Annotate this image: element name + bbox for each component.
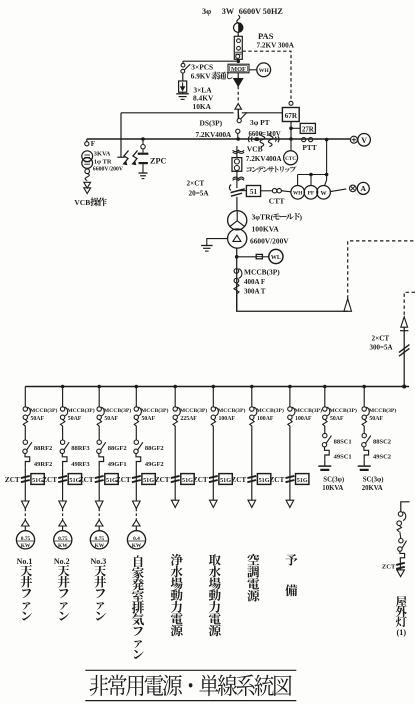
svg-text:KW: KW — [95, 543, 105, 549]
svg-text:67R: 67R — [285, 112, 298, 120]
svg-text:88GF2: 88GF2 — [108, 445, 127, 452]
breaker MCCB(3P) 225AF branch 5 — [173, 407, 177, 411]
cable head branch 1 upper — [22, 501, 30, 509]
svg-text:7.2KV400A: 7.2KV400A — [246, 155, 283, 163]
svg-text:50AF: 50AF — [142, 416, 156, 422]
wire meter drop — [298, 140, 327, 186]
svg-text:300A T: 300A T — [244, 288, 266, 296]
svg-text:49RF3: 49RF3 — [71, 461, 90, 468]
svg-text:225AF: 225AF — [180, 416, 197, 422]
svg-text:ZCT: ZCT — [79, 476, 94, 484]
svg-text:3φ PT: 3φ PT — [250, 118, 270, 127]
title rule bottom — [85, 700, 296, 702]
motor 0.4KW branch 4 — [127, 531, 145, 549]
svg-text:No.1: No.1 — [17, 557, 33, 566]
svg-text:ZCT: ZCT — [382, 564, 396, 571]
meter CTC — [290, 139, 292, 151]
node bus tap branch 3 — [97, 385, 101, 389]
svg-text:51G: 51G — [182, 477, 193, 484]
wire branch 3 down — [98, 489, 100, 501]
wire TR secondary — [85, 169, 90, 174]
arrow to VCB control (double chevron) — [84, 182, 91, 188]
svg-text:KW: KW — [132, 543, 142, 549]
load label No.3 ceiling fan — [94, 565, 106, 621]
svg-text:50HZ: 50HZ — [263, 7, 284, 16]
arrow outdoor light feeder out — [397, 570, 405, 577]
cable head lower — [235, 104, 242, 110]
wire to motor branch 3 — [98, 526, 100, 531]
title rule top — [85, 669, 296, 671]
breaker MCCB(3P) 50AF branch 4 — [134, 407, 138, 411]
arrow feeder out branch 8 — [286, 500, 294, 507]
title 非常用電源・単線系統図 — [89, 675, 291, 697]
wire to PAS — [237, 32, 239, 36]
load label water-purification power — [171, 554, 183, 637]
svg-text:6.9KV: 6.9KV — [191, 73, 212, 81]
svg-text:CTC: CTC — [285, 156, 296, 162]
wire branch 7 down — [251, 489, 253, 501]
node bus tap branch 2 — [61, 385, 65, 389]
svg-text:V: V — [361, 136, 367, 145]
breaker MCCB(3P) 50AF branch 2 — [60, 407, 64, 411]
zct ZCT branch 8 — [286, 476, 295, 478]
svg-text:49SC1: 49SC1 — [334, 453, 352, 460]
cable head branch 1 lower — [22, 520, 30, 526]
zct ZCT branch 2 — [58, 476, 67, 478]
svg-text:88SC2: 88SC2 — [373, 438, 391, 445]
wire feeder cable return (dashed from edge) — [404, 292, 415, 317]
wire to motor branch 2 — [62, 526, 64, 531]
relay 51G branch 5 — [181, 474, 194, 485]
wire to motor branch 4 — [135, 526, 137, 531]
wire branch 4 cable (dashed) — [135, 509, 137, 521]
ct 2xCT 20/5A current transformers — [229, 185, 231, 191]
svg-text:100AF: 100AF — [219, 416, 236, 422]
motor 0.75KW branch 3 — [90, 531, 108, 549]
wire below MOF — [237, 73, 239, 79]
relay 51G branch 6 — [219, 474, 232, 485]
relay 51G branch 1 — [31, 474, 44, 485]
wire feeder cable (dashed up and right) — [348, 241, 415, 299]
svg-text:2×CT: 2×CT — [187, 180, 205, 188]
svg-text:DS(3P): DS(3P) — [200, 119, 223, 128]
node bus tap branch 6 — [212, 385, 216, 389]
svg-text:SC(3φ): SC(3φ) — [323, 477, 344, 484]
relay 51G branch 4 — [142, 474, 155, 485]
svg-text:400A F: 400A F — [244, 278, 265, 286]
fuse F control power — [86, 139, 88, 142]
load label generator-room exhaust fan — [132, 555, 144, 658]
svg-text:No.2: No.2 — [54, 557, 70, 566]
svg-text:0.75: 0.75 — [58, 536, 68, 542]
zct ZCT branch 3 — [95, 476, 104, 478]
wire service drop — [237, 15, 240, 23]
svg-text:MCCB(3P): MCCB(3P) — [329, 407, 357, 414]
capacitor ZPC grounding capacitor — [142, 139, 144, 144]
zct ZCT branch 7 — [247, 476, 256, 478]
svg-text:ZCT: ZCT — [5, 476, 20, 484]
thermal relay 49GF2 branch 4 — [136, 454, 141, 468]
svg-text:MCCB(3P): MCCB(3P) — [180, 407, 208, 414]
arrow feeder out branch 6 — [210, 500, 218, 507]
zct ZCT branch 5 — [171, 476, 180, 478]
capacitor SC(3&#966;) 20KVA power capacitor — [358, 465, 371, 467]
svg-text:PF: PF — [308, 191, 315, 197]
wire to cable head — [237, 294, 348, 311]
svg-text:MCCB(3P): MCCB(3P) — [104, 407, 132, 414]
wire to ZCT branch 3 — [98, 467, 100, 474]
wire MOF to WH meter — [249, 69, 257, 71]
switch 3xPCS primary cutout — [181, 63, 185, 67]
breaker VCB 7.2KV400A vacuum circuit breaker — [233, 152, 245, 154]
wire to ZCT branch 4 — [135, 467, 137, 474]
svg-text:3φ: 3φ — [202, 7, 211, 16]
node responsibility demarcation point — [234, 23, 243, 32]
svg-text:51G: 51G — [259, 477, 270, 484]
svg-text:51G: 51G — [297, 477, 308, 484]
wire control cable to 67R (dashed) — [243, 51, 292, 101]
wire branch 10 drop — [363, 387, 365, 407]
thermal relay 49SC1 — [325, 447, 330, 459]
zct ZCT branch 4 — [132, 476, 141, 478]
wire branch 6 to ZCT — [212, 426, 214, 475]
ground transformer neutral — [207, 239, 228, 246]
svg-text:0.75: 0.75 — [21, 536, 31, 542]
svg-text:VCB: VCB — [74, 198, 90, 207]
meter A ammeter with selector — [350, 185, 357, 192]
svg-text:49RF2: 49RF2 — [34, 461, 52, 468]
wire branch 2 drop — [62, 387, 64, 407]
wire branch 4 to contactor — [135, 426, 137, 440]
svg-text:ZCT: ZCT — [193, 476, 208, 484]
svg-text:100AF: 100AF — [257, 416, 274, 422]
svg-text:0.4: 0.4 — [133, 536, 140, 542]
wire W to ammeter — [330, 189, 346, 192]
cable head feeder in — [401, 317, 408, 327]
svg-text:27R: 27R — [302, 126, 314, 133]
svg-text:20=5A: 20=5A — [189, 190, 210, 198]
cable head branch 2 upper — [59, 501, 67, 509]
wire to capacitor 9 — [324, 459, 326, 466]
svg-text:3φTR(: 3φTR( — [252, 213, 274, 222]
lamp WL white pilot lamp — [269, 249, 283, 263]
terminal PTT test terminal — [302, 138, 306, 142]
svg-text:1φ TR: 1φ TR — [94, 158, 112, 165]
wire cable head to DS — [237, 109, 239, 118]
svg-text:ZCT: ZCT — [42, 476, 57, 484]
wire branch 8 drop — [289, 387, 291, 407]
arrow feeder out branch 5 — [171, 500, 179, 507]
svg-text:(1): (1) — [397, 628, 407, 637]
wire VCB to transformer — [236, 197, 238, 211]
node feeder junction on bus — [402, 385, 406, 389]
svg-text:MCCB(3P): MCCB(3P) — [141, 407, 169, 414]
svg-text:MCCB(3P): MCCB(3P) — [67, 407, 95, 414]
svg-text:88SC1: 88SC1 — [334, 438, 352, 445]
breaker MCCB outdoor light — [398, 512, 403, 517]
svg-text:49GF2: 49GF2 — [145, 461, 164, 468]
thermal relay 49SC2 — [364, 447, 369, 459]
node junction to 27R — [289, 127, 293, 131]
svg-text:88RF2: 88RF2 — [34, 445, 52, 452]
svg-text:3W: 3W — [222, 7, 235, 16]
wire branch 1 cable (dashed) — [24, 509, 26, 521]
svg-text:CTT: CTT — [269, 196, 285, 205]
wire branch 6 drop — [212, 387, 214, 407]
wire branch 2 cable (dashed) — [62, 509, 64, 521]
wire outdoor light feeder tap — [401, 502, 410, 512]
wire to capacitor 10 — [363, 459, 365, 466]
wire branch 7 drop — [251, 387, 253, 407]
node control terminal — [289, 101, 293, 105]
meter PF — [304, 186, 318, 200]
svg-text:ZPC: ZPC — [150, 156, 166, 165]
wire branch 7 to ZCT — [251, 426, 253, 475]
svg-text:51G: 51G — [220, 477, 231, 484]
node meter branch junction — [325, 138, 329, 142]
arrester 3xLA lightning arrester — [179, 81, 187, 92]
svg-text:20KVA: 20KVA — [362, 485, 383, 492]
node ZPC tap on bus — [141, 137, 145, 141]
svg-text:PTT: PTT — [302, 143, 316, 152]
svg-text:0.75: 0.75 — [95, 536, 105, 542]
wire branch 3 to contactor — [98, 426, 100, 440]
svg-text:50AF: 50AF — [68, 416, 82, 422]
svg-text:3KVA: 3KVA — [94, 151, 111, 158]
switch outdoor light — [400, 532, 401, 539]
load label No.1 ceiling fan — [20, 565, 32, 621]
relay 67R directional ground relay — [282, 108, 299, 122]
svg-text:No.3: No.3 — [91, 557, 107, 566]
svg-text:49SC2: 49SC2 — [373, 453, 391, 460]
wire branch 4 down — [135, 489, 137, 501]
svg-text:7.2KV 300A: 7.2KV 300A — [257, 42, 295, 50]
svg-text:WH: WH — [259, 68, 270, 74]
load label intake power — [209, 554, 221, 636]
wire transformer secondary — [236, 248, 238, 311]
svg-text:50AF: 50AF — [330, 416, 344, 422]
wire underground cable (dashed) — [237, 86, 239, 103]
ground for ZPC — [139, 172, 148, 174]
node bus-DS junction — [236, 137, 240, 141]
svg-text:MCCB(3P): MCCB(3P) — [256, 407, 284, 414]
wire to ZCT branch 2 — [62, 467, 64, 474]
wire to ZCT branch 1 — [24, 467, 26, 474]
breaker MCCB(3P) 100AF branch 8 — [288, 407, 292, 411]
relay 51G branch 3 — [105, 474, 118, 485]
svg-text:51G: 51G — [143, 477, 154, 484]
cable head branch 4 lower — [133, 520, 141, 526]
wire branch 1 drop — [24, 387, 26, 407]
wire branch 1 to contactor — [24, 426, 26, 440]
wire branch 5 to ZCT — [174, 426, 176, 475]
cable head branch 3 upper — [95, 501, 103, 509]
wire takeoff to control transformer branch — [121, 112, 234, 114]
wire branch 2 down — [62, 489, 64, 501]
meter WH — [291, 186, 305, 200]
svg-text:6600=110V: 6600=110V — [249, 131, 281, 138]
contactor 88RF3 branch 2 — [60, 440, 64, 444]
transformer 3φPT 6600=110V potential transformer — [248, 136, 249, 142]
load label No.2 ceiling fan — [58, 565, 70, 621]
svg-text:50AF: 50AF — [31, 416, 45, 422]
svg-text:A: A — [361, 184, 367, 193]
wire 6.6kV high-voltage bus — [87, 138, 351, 140]
wire 67R to bus — [290, 122, 292, 140]
zct ZCT outdoor light — [396, 563, 405, 565]
metering MOF — [228, 64, 249, 73]
svg-text:6600V/200V: 6600V/200V — [250, 237, 289, 246]
cable head branch 4 upper — [133, 501, 141, 509]
svg-text:7.2KV400A: 7.2KV400A — [196, 131, 233, 139]
load label spare 備 — [285, 584, 297, 596]
wire 200V low-voltage bus — [25, 386, 409, 388]
breaker MCCB(3P) 50AF branch 9 — [323, 407, 327, 411]
svg-text:KW: KW — [58, 543, 68, 549]
relay 51 overcurrent — [246, 186, 260, 197]
svg-text:MOF: MOF — [231, 66, 246, 73]
svg-text:88RF3: 88RF3 — [71, 445, 90, 452]
svg-text:WH: WH — [293, 191, 303, 197]
svg-text:2×CT: 2×CT — [372, 335, 390, 343]
wire CTT to WH — [282, 191, 291, 192]
node meter wire junction — [309, 173, 313, 177]
switch DS(3P) 7.2KV400A disconnector — [237, 119, 241, 123]
svg-text:ZCT: ZCT — [116, 476, 131, 484]
wire branch 9 drop — [324, 387, 326, 407]
svg-text:MCCB(3P): MCCB(3P) — [295, 407, 323, 414]
contactor 88GF2 branch 4 — [134, 440, 138, 444]
svg-text:F: F — [91, 140, 95, 148]
wire CT secondary to 51 — [237, 190, 247, 192]
terminal CTT test terminal — [271, 190, 272, 192]
svg-text:49GF1: 49GF1 — [108, 461, 127, 468]
contactor 88SC1 — [323, 433, 327, 437]
meter V voltmeter with selector — [350, 136, 357, 143]
wire to ZPC — [120, 113, 122, 157]
svg-text:ZCT: ZCT — [155, 476, 170, 484]
svg-text:MCCB(3P): MCCB(3P) — [218, 407, 246, 414]
svg-text:MCCB(3P): MCCB(3P) — [30, 407, 58, 414]
switch PAS 7.2KV 300A pole air switch — [234, 36, 242, 59]
node bus tap branch 4 — [135, 385, 139, 389]
wire branch 2 to contactor — [62, 426, 64, 440]
svg-text:W: W — [321, 190, 328, 197]
cable head feeder out — [344, 299, 352, 312]
contactor 88RF2 branch 1 — [23, 440, 27, 444]
relay 27R undervoltage relay — [300, 123, 315, 133]
arrow feeder out branch 7 — [248, 500, 256, 507]
wire branch 5 drop — [174, 387, 176, 407]
svg-text:VCB: VCB — [247, 144, 263, 153]
svg-text:6600V/200V: 6600V/200V — [93, 167, 124, 173]
svg-text:MCCB(3P): MCCB(3P) — [244, 268, 280, 277]
discharge gaps ZPC — [124, 151, 129, 165]
meter W — [317, 186, 331, 200]
zct ZCT branch 6 — [209, 476, 218, 478]
wire branch to PCS — [183, 60, 238, 62]
svg-text:3×PCS: 3×PCS — [191, 63, 213, 72]
svg-text:MCCB(3P): MCCB(3P) — [369, 407, 397, 414]
wire branch 5 down — [174, 489, 176, 501]
node bus tap branch 5 — [173, 385, 177, 389]
node WL branch — [235, 255, 239, 259]
svg-text:50AF: 50AF — [369, 416, 383, 422]
motor 0.75KW branch 2 — [54, 531, 72, 549]
breaker MCCB(3P) 50AF branch 3 — [97, 407, 101, 411]
breaker MCCB(3P) 400AF 300AT main low-voltage breaker — [234, 269, 239, 274]
svg-text:100AF: 100AF — [295, 416, 312, 422]
wire to motor branch 1 — [24, 526, 26, 531]
node bus junction at 67R drop — [289, 137, 293, 141]
wire PCS to LA — [182, 73, 184, 81]
load label air-conditioning power — [247, 554, 259, 602]
svg-text:51: 51 — [250, 188, 258, 196]
breaker MCCB(3P) 50AF branch 10 — [362, 407, 366, 411]
svg-text:300=5A: 300=5A — [370, 344, 393, 352]
load label spare 予 — [286, 554, 298, 566]
contactor 88SC2 — [362, 433, 366, 437]
svg-text:6600V: 6600V — [239, 7, 261, 16]
svg-text:100KVA: 100KVA — [252, 225, 280, 234]
meter WH watt-hour — [257, 63, 271, 77]
wire 51 to CTT — [261, 190, 271, 192]
wire branch 3 drop — [98, 387, 100, 407]
wire branch 3 cable (dashed) — [98, 509, 100, 521]
contactor 88GF2 branch 3 — [97, 440, 101, 444]
relay 51G branch 2 — [68, 474, 81, 485]
svg-text:10KA: 10KA — [193, 102, 212, 111]
wire branch 4 drop — [135, 387, 137, 407]
cable head branch 2 lower — [59, 520, 67, 526]
node bus tap branch 10 — [362, 385, 366, 389]
breaker MCCB(3P) 100AF branch 6 — [211, 407, 215, 411]
ground for LA — [182, 92, 184, 94]
node bus tap branch 8 — [288, 385, 292, 389]
transformer 3φTR 100KVA 6600V/200V molded — [228, 211, 247, 230]
wire to low bus — [403, 327, 405, 386]
thermal relay 49RF2 branch 1 — [25, 454, 30, 468]
relay 51G branch 7 — [257, 474, 270, 485]
transformer 1φTR 3KVA control transformer — [82, 151, 93, 162]
cable head upper (to underground cable) — [234, 79, 243, 87]
zct ZCT branch 1 — [21, 476, 30, 478]
wire branch 1 down — [24, 489, 26, 501]
wire branch 9 to contactor — [324, 426, 326, 434]
svg-text:50AF: 50AF — [104, 416, 118, 422]
motor 0.75KW branch 1 — [16, 531, 34, 549]
cable head branch 3 lower — [95, 520, 103, 526]
svg-text:ZCT: ZCT — [270, 476, 285, 484]
wire branch 6 down — [212, 489, 214, 501]
svg-text:ZCT: ZCT — [231, 476, 246, 484]
wire branch 8 down — [289, 489, 291, 501]
svg-text:KW: KW — [21, 543, 31, 549]
relay 51G branch 8 — [296, 474, 309, 485]
ct 2xCT 300/5A — [399, 345, 409, 353]
svg-text:PAS: PAS — [258, 31, 274, 41]
fuse WL branch — [237, 256, 257, 258]
svg-text:88GF2: 88GF2 — [145, 445, 164, 452]
thermal relay 49GF1 branch 3 — [99, 454, 104, 468]
wire branch 8 to ZCT — [289, 426, 291, 475]
wire branch 10 to contactor — [363, 426, 365, 434]
thermal relay outdoor light — [400, 551, 405, 561]
breaker MCCB(3P) 100AF branch 7 — [250, 407, 254, 411]
svg-text:SC(3φ): SC(3φ) — [363, 477, 384, 484]
node bus tap branch 9 — [323, 385, 327, 389]
capacitor SC(3&#966;) 10KVA power capacitor — [318, 465, 331, 467]
